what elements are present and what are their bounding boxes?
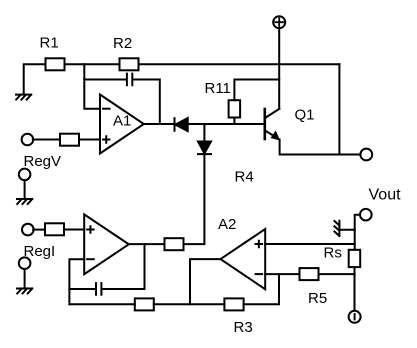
wire C2 to output junction xyxy=(102,244,144,289)
ground (rotated, near Vout) xyxy=(334,221,339,236)
input terminal RegI xyxy=(22,224,34,236)
resistor (A1 non-inverting input) xyxy=(60,134,79,146)
wire supply to Q1 collector xyxy=(278,28,280,109)
wire A3 output to resistor xyxy=(129,243,165,245)
wire feedback vertical to output line xyxy=(338,64,340,154)
wire A2 non-inverting input to Rs top node xyxy=(265,243,355,245)
svg-text:RegV: RegV xyxy=(24,153,62,170)
label RegV xyxy=(24,153,62,170)
wire capacitor branch left xyxy=(84,79,126,81)
wire ground tap near Vout xyxy=(340,229,355,231)
terminal RegV post xyxy=(19,169,31,181)
op-amp A2 xyxy=(218,216,265,289)
resistor (A3 non-inverting input) xyxy=(45,223,64,235)
svg-text:R11: R11 xyxy=(205,80,231,97)
wire A2 output to bottom line xyxy=(190,259,221,304)
label RegI xyxy=(24,243,56,260)
resistor R1 xyxy=(40,35,65,71)
transistor Q1 xyxy=(265,107,315,140)
resistor Rs xyxy=(349,250,361,267)
wire junction drop to diode D2 xyxy=(203,124,205,142)
wire R2 to right feedback corner xyxy=(139,63,340,65)
wire capacitor C2 branch xyxy=(69,288,95,290)
wire A3 inverting feedback left drop xyxy=(69,259,84,304)
ground (below RegV) xyxy=(17,199,32,204)
wire terminal to input resistor xyxy=(33,139,60,141)
wire bottom feedback left segment xyxy=(69,303,134,305)
power supply V+ xyxy=(273,16,285,28)
wire RegI post to ground xyxy=(24,269,26,288)
diode D1 xyxy=(175,118,188,131)
wire R11 top lead to supply rail xyxy=(234,80,279,101)
op-amp A3 (lower left, unlabeled) xyxy=(84,214,129,274)
label R4 xyxy=(235,169,254,186)
terminal RegI post xyxy=(19,257,31,269)
wire R1 left lead and drop to ground xyxy=(24,64,46,94)
output terminal (emitter) xyxy=(360,149,372,161)
resistor R4 body (A3 output) xyxy=(165,238,184,250)
wire A2 inverting input to R5 xyxy=(265,273,299,275)
ground (below RegI) xyxy=(17,289,32,294)
wire R11 bottom lead xyxy=(233,118,235,125)
diode D2 xyxy=(198,142,211,155)
svg-text:A2: A2 xyxy=(218,216,236,233)
wire D1 to Q1 base xyxy=(188,123,264,125)
svg-text:Rs: Rs xyxy=(324,245,342,262)
resistor R5 xyxy=(300,268,328,307)
svg-text:R1: R1 xyxy=(40,35,59,52)
wire R1 to R2 xyxy=(65,63,120,65)
wire capacitor to feedback junction xyxy=(133,80,160,125)
svg-text:R3: R3 xyxy=(234,319,253,336)
wire node A1 inverting input drop xyxy=(84,64,100,108)
capacitor C1 xyxy=(127,74,132,86)
wire Q1 emitter to output line xyxy=(280,140,361,155)
svg-text:Vout: Vout xyxy=(369,187,402,204)
wire terminal to RegI resistor xyxy=(33,229,45,231)
wire bottom to R3 xyxy=(154,303,225,305)
wire R5 to Rs bottom node xyxy=(319,273,355,275)
wire R4 line down to A3 output node xyxy=(184,154,205,244)
wire R3 right up to A2 inverting node xyxy=(244,274,279,304)
resistor R2 xyxy=(113,35,139,70)
wire resistor to A3 + input xyxy=(64,229,84,231)
capacitor C2 xyxy=(96,283,101,295)
ground (top left) xyxy=(16,95,31,100)
wire A1 output to diode D1 xyxy=(144,123,174,125)
wire Vout vertical rail xyxy=(355,215,361,310)
wire RegV post to ground xyxy=(24,180,26,198)
svg-text:R5: R5 xyxy=(308,290,327,307)
wire resistor to A1 + input xyxy=(79,139,100,141)
resistor R3 xyxy=(224,298,252,336)
op-amp A1 xyxy=(100,95,144,154)
current output terminal xyxy=(349,311,361,323)
svg-text:A1: A1 xyxy=(113,113,131,130)
label Rs xyxy=(324,245,342,262)
resistor (bottom feedback, unlabeled) xyxy=(135,298,154,310)
svg-text:R2: R2 xyxy=(113,35,132,52)
svg-text:R4: R4 xyxy=(235,169,254,186)
terminal Vout xyxy=(360,187,401,221)
resistor R11 xyxy=(205,80,241,118)
input terminal RegV xyxy=(22,134,34,146)
svg-text:Q1: Q1 xyxy=(295,107,315,124)
